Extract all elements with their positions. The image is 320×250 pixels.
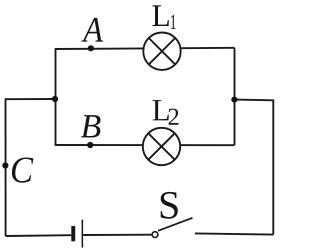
- wire left branch vertical: [55, 48, 57, 146]
- switch S: lever arm: [158, 218, 193, 231]
- wire top horizontal (A / L1 branch): [56, 48, 235, 49]
- switch S: pivot circle: [152, 232, 158, 238]
- wire right branch vertical: [234, 48, 236, 145]
- wire middle horizontal (B / L2 branch): [56, 144, 235, 146]
- node B junction dot: [87, 142, 93, 148]
- lamp L1: [143, 33, 180, 70]
- label L1 "L": [152, 5, 168, 26]
- junction dot left (branch split): [52, 96, 58, 102]
- label C: [12, 157, 33, 182]
- label L2 "2": [169, 109, 179, 125]
- node A junction dot: [88, 45, 94, 51]
- wire left rail vertical: [5, 98, 7, 236]
- label L2 "L": [153, 100, 169, 120]
- battery cell: thick short plate (left): [71, 226, 75, 241]
- junction dot right (branch merge): [231, 97, 237, 103]
- lamp L2: [143, 128, 180, 165]
- wire bottom middle horizontal: [83, 234, 152, 236]
- node C junction dot: [2, 162, 8, 168]
- wire junction to right rail: [234, 99, 273, 102]
- label S: [161, 192, 178, 219]
- wire bottom left horizontal: [6, 234, 72, 237]
- wire top left horizontal: [6, 98, 56, 100]
- label A: [81, 18, 103, 42]
- label B: [81, 115, 101, 137]
- label L1 "1": [171, 15, 176, 29]
- wire right rail vertical: [272, 100, 274, 235]
- wire bottom right horizontal: [195, 233, 273, 234]
- battery cell: thin long plate (right): [82, 220, 84, 248]
